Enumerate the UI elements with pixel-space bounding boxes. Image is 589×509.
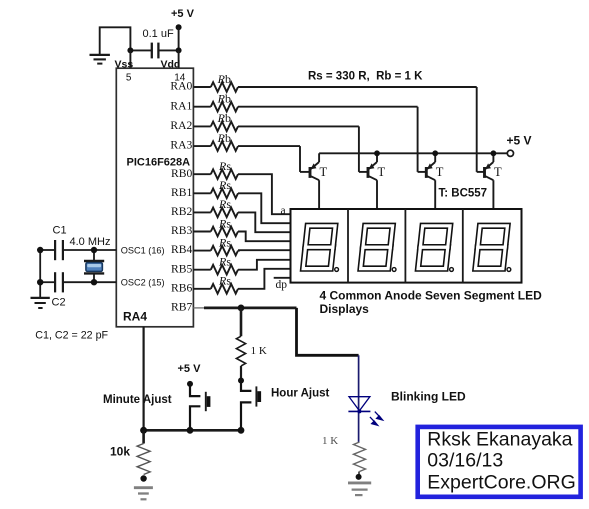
- wire RB1 pin stub: [193, 192, 210, 194]
- resistor Rs (RB4): [211, 246, 238, 256]
- wire RA1 pin stub: [193, 106, 210, 108]
- resistor Rs (RB5): [211, 265, 238, 275]
- wire RB5 pin stub: [193, 269, 210, 271]
- wire OSC1 row: [40, 249, 55, 251]
- node +5V rail terminal: [507, 150, 513, 156]
- resistor 1K (LED): [354, 442, 366, 472]
- wire RB5 to segment f: [238, 260, 291, 270]
- svg-text:4.0 MHz: 4.0 MHz: [70, 236, 111, 248]
- resistor 1K (hour): [236, 336, 245, 366]
- capacitor C2: [55, 272, 63, 292]
- svg-text:Rs: Rs: [218, 178, 231, 192]
- wire resistor to hour button: [240, 366, 242, 381]
- wire dp stub: [274, 277, 291, 279]
- svg-text:RB3: RB3: [171, 224, 192, 237]
- wire +5V to Vdd: [178, 27, 180, 50]
- svg-text:RB2: RB2: [171, 205, 192, 218]
- svg-text:C1: C1: [53, 225, 67, 237]
- node Vss junction: [127, 47, 133, 53]
- transistor Q3 (BC557 PNP): [418, 153, 444, 209]
- node +5V supply terminal: [176, 24, 182, 30]
- resistor Rs (RB3): [211, 227, 238, 237]
- svg-text:RA3: RA3: [170, 139, 192, 152]
- seven segment digit 2: [361, 226, 393, 269]
- resistor Rs (RB1): [211, 189, 238, 199]
- svg-text:ExpertCore.ORG: ExpertCore.ORG: [427, 472, 575, 494]
- svg-text:Rksk Ekanayaka: Rksk Ekanayaka: [427, 428, 572, 450]
- svg-text:RA1: RA1: [170, 99, 192, 112]
- resistor Rb (RA3): [211, 141, 238, 151]
- capacitor C1: [55, 240, 63, 260]
- wire RB3 pin stub: [193, 231, 210, 233]
- wire RA2 pin stub: [193, 125, 210, 127]
- wire RA3 to transistor base column: [238, 145, 300, 147]
- LED D1 blinking: [348, 397, 382, 426]
- wire RB4 pin stub: [193, 250, 210, 252]
- node rail junction Q3: [432, 150, 438, 156]
- wire to LED anode: [358, 355, 360, 442]
- node RB7 junction: [238, 305, 245, 312]
- svg-text:RB4: RB4: [171, 243, 192, 256]
- wire resistor to ground: [358, 472, 360, 477]
- svg-text:C1, C2 = 22 pF: C1, C2 = 22 pF: [35, 330, 108, 342]
- svg-text:Rb: Rb: [217, 111, 231, 125]
- svg-text:T: T: [378, 165, 386, 179]
- svg-text:1 K: 1 K: [322, 435, 338, 447]
- node rail junction Q2: [374, 150, 380, 156]
- svg-text:Rs: Rs: [218, 255, 231, 269]
- wire +5V collector rail: [319, 152, 507, 154]
- svg-text:RA4: RA4: [123, 310, 147, 324]
- svg-text:Rs: Rs: [218, 274, 231, 288]
- ground (10k, grey): [134, 488, 153, 500]
- svg-text:+5 V: +5 V: [171, 8, 195, 20]
- ground (LED, grey): [348, 483, 371, 495]
- seven segment digit 3: [418, 226, 450, 269]
- node bus junctions: [140, 427, 147, 434]
- svg-text:Rb: Rb: [217, 72, 231, 86]
- switch hour adjust button: [241, 381, 261, 431]
- seven segment digit 1: [303, 226, 335, 269]
- svg-text:a: a: [281, 205, 286, 217]
- wire RB1 to segment b: [238, 193, 291, 223]
- wire RB0 to segment a: [238, 174, 291, 214]
- svg-text:10k: 10k: [110, 445, 130, 459]
- node OSC2 junctions: [37, 279, 43, 285]
- wire RB6 to segment g: [238, 269, 291, 289]
- svg-text:Rs = 330 R, Rb = 1 K: Rs = 330 R, Rb = 1 K: [308, 71, 423, 83]
- svg-text:T: T: [320, 165, 328, 179]
- decimal point digit 2: [392, 268, 396, 272]
- wire RA0 pin stub: [193, 86, 210, 88]
- svg-text:03/16/13: 03/16/13: [427, 450, 503, 472]
- svg-text:Minute Ajust: Minute Ajust: [103, 394, 172, 406]
- op-amp U1 PIC16F628A microcontroller body: [116, 68, 193, 327]
- resistor Rs (RB6): [211, 284, 238, 294]
- svg-text:RB5: RB5: [171, 262, 192, 275]
- node LED ground junction: [356, 474, 362, 480]
- svg-text:Displays: Displays: [320, 302, 370, 316]
- svg-text:T: T: [436, 165, 444, 179]
- wire RB2 pin stub: [193, 211, 210, 213]
- wire junction to 1K resistor: [240, 308, 243, 336]
- svg-text:Rb: Rb: [217, 92, 231, 106]
- transistor Q2 (BC557 PNP): [359, 153, 386, 209]
- capacitor 0.1 uF: [130, 28, 178, 58]
- wire RB7 heavy run: [204, 306, 297, 309]
- svg-text:RA0: RA0: [170, 80, 192, 93]
- resistor 10k: [137, 444, 150, 475]
- node rail junction Q4: [491, 150, 497, 156]
- svg-text:5: 5: [126, 73, 132, 84]
- svg-text:RA2: RA2: [170, 119, 192, 132]
- svg-text:Blinking LED: Blinking LED: [391, 389, 466, 403]
- wire RB4 to segment e: [238, 249, 291, 251]
- svg-text:+5 V: +5 V: [507, 133, 532, 147]
- wire RA4 column: [143, 327, 145, 431]
- wire display separator: [404, 209, 406, 283]
- ground (crystal): [31, 298, 50, 308]
- wire RB2 to segment c: [238, 212, 291, 232]
- wire Vss to top ground: [100, 27, 131, 54]
- transistor Q4 (BC557 PNP): [477, 153, 502, 209]
- svg-text:OSC2 (15): OSC2 (15): [121, 278, 165, 288]
- switch minute adjust button: [190, 384, 210, 430]
- wire bus to 10k: [142, 430, 145, 443]
- wire left bus to ground: [39, 250, 41, 297]
- svg-text:RB1: RB1: [171, 186, 192, 199]
- decimal point digit 4: [507, 268, 511, 272]
- ground (top left): [90, 55, 110, 64]
- wire RB6 pin stub: [193, 288, 210, 290]
- resistor Rs (RB0): [211, 169, 238, 179]
- wire display separator: [347, 209, 349, 283]
- crystal X1 4.0 MHz: [84, 250, 104, 282]
- wire OSC2 row: [40, 281, 55, 283]
- svg-text:Rs: Rs: [218, 197, 231, 211]
- wire button bus: [144, 429, 241, 432]
- svg-text:Rs: Rs: [218, 216, 231, 230]
- svg-text:Rs: Rs: [218, 235, 231, 249]
- svg-text:RB0: RB0: [171, 167, 192, 180]
- wire display separator: [462, 209, 464, 283]
- resistor Rb (RA0): [211, 82, 238, 92]
- wire RB7 down/right to LED: [297, 308, 359, 355]
- node OSC1 junctions: [37, 247, 43, 253]
- resistor Rb (RA1): [211, 102, 238, 112]
- svg-text:Rs: Rs: [218, 159, 231, 173]
- resistor Rb (RA2): [211, 122, 238, 132]
- node 10k bottom: [140, 475, 146, 481]
- decimal point digit 1: [335, 268, 339, 272]
- svg-text:dp: dp: [276, 279, 288, 291]
- svg-text:RB6: RB6: [171, 281, 192, 294]
- svg-text:Rb: Rb: [217, 131, 231, 145]
- wire RB7 pin stub: [193, 307, 204, 309]
- wire Vdd pin stub: [178, 50, 180, 68]
- node hour button top: [238, 378, 244, 384]
- seven segment digit 4: [475, 226, 507, 269]
- wire RB0 pin stub: [193, 173, 210, 175]
- svg-text:1 K: 1 K: [251, 345, 267, 357]
- svg-text:4 Common Anode Seven Segment L: 4 Common Anode Seven Segment LED: [320, 289, 543, 303]
- resistor Rs (RB2): [211, 208, 238, 218]
- svg-text:T: T: [494, 165, 502, 179]
- svg-text:RB7: RB7: [171, 301, 192, 314]
- label credit box: [418, 427, 581, 497]
- svg-text:T: BC557: T: BC557: [439, 188, 488, 200]
- svg-text:C2: C2: [52, 297, 66, 309]
- transistor Q1 (BC557 PNP): [300, 153, 328, 209]
- wire RA0 to transistor base column: [238, 86, 477, 88]
- svg-text:Hour Ajust: Hour Ajust: [271, 387, 330, 399]
- wire RA2 to transistor base column: [238, 125, 359, 127]
- display module outline: [291, 209, 522, 283]
- wire Vss pin stub: [129, 50, 131, 68]
- node +5V minute button: [187, 381, 193, 387]
- wire RA3 pin stub: [193, 145, 210, 147]
- decimal point digit 3: [450, 268, 454, 272]
- wire RA1 to transistor base column: [238, 106, 418, 108]
- svg-text:0.1 uF: 0.1 uF: [143, 28, 174, 40]
- svg-text:+5 V: +5 V: [178, 363, 202, 375]
- wire RB3 to segment d: [238, 232, 291, 242]
- node Vdd junction: [176, 47, 182, 53]
- svg-text:OSC1 (16): OSC1 (16): [121, 245, 165, 255]
